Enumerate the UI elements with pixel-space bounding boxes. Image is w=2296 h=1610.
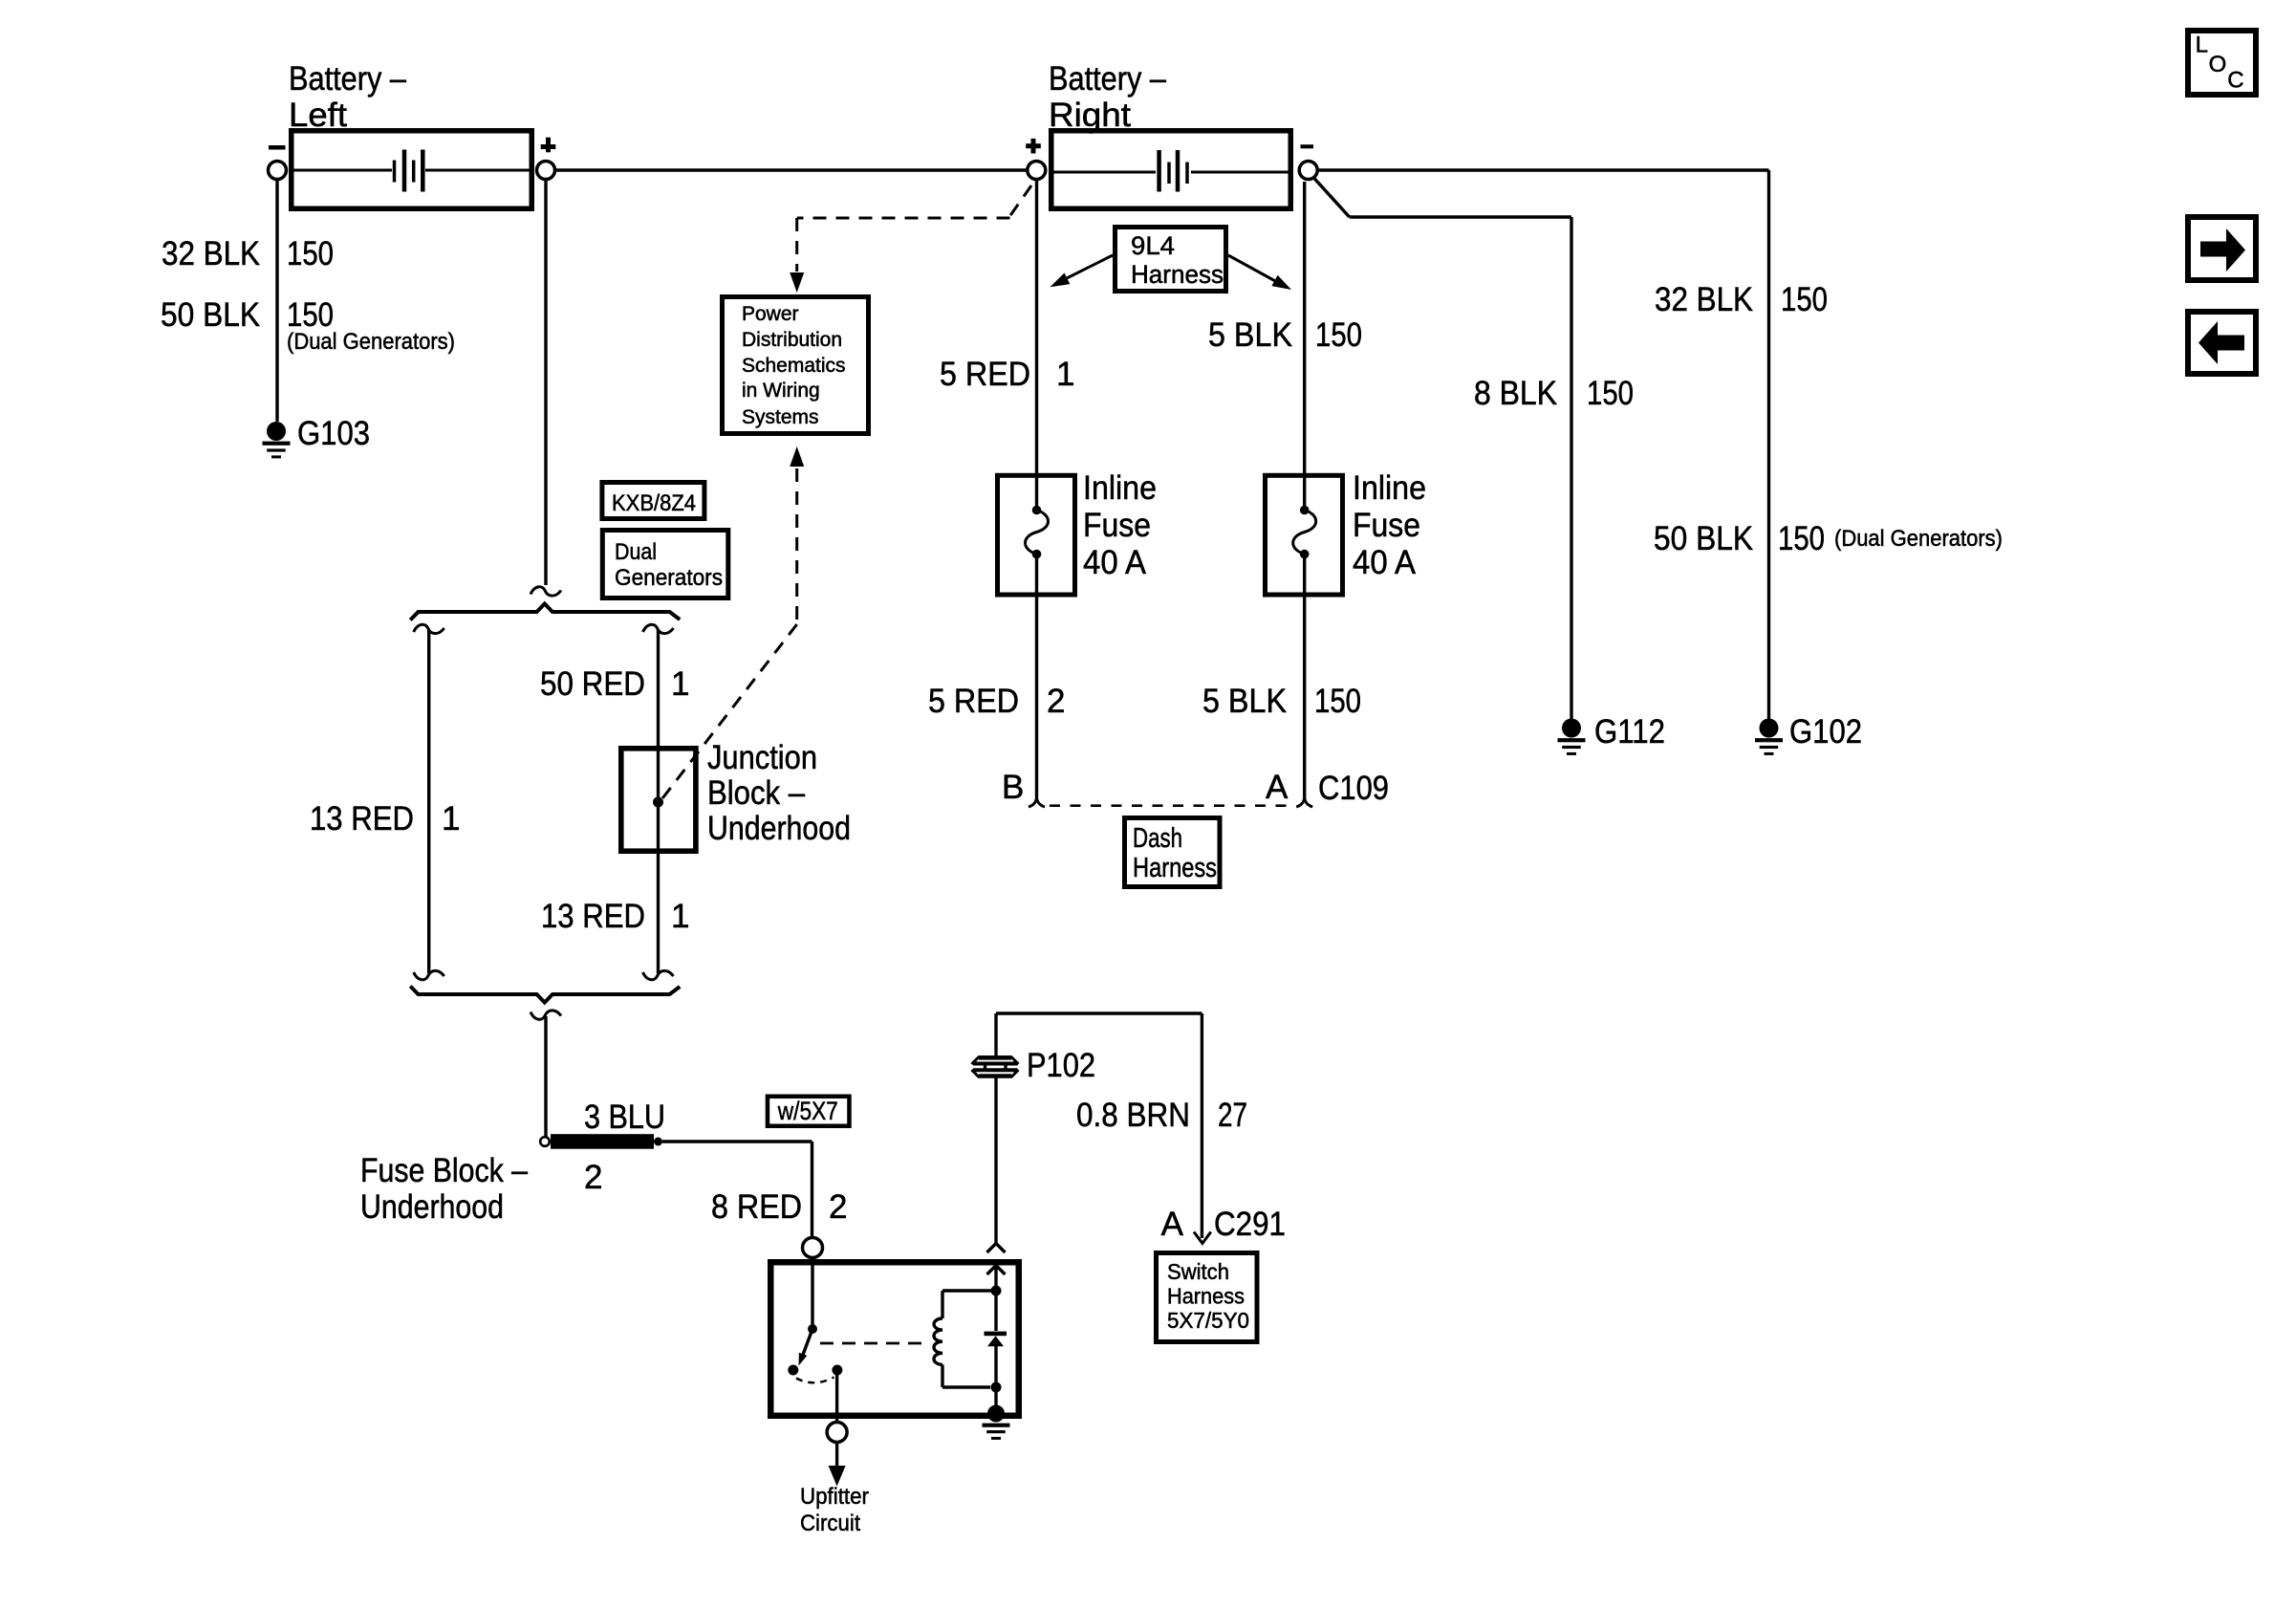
svg-text:L: L (2196, 33, 2208, 58)
svg-text:Circuit: Circuit (800, 1511, 860, 1536)
ground G102 (1755, 713, 1862, 755)
svg-text:Underhood: Underhood (360, 1188, 504, 1226)
wire 50 RED / 13 RED (643, 624, 674, 980)
battery B-right cell symbol (1051, 150, 1290, 192)
label 8 BLK 150 (1474, 375, 1634, 412)
svg-text:Generators: Generators (615, 565, 723, 591)
connector C109 pin A fork (1296, 797, 1312, 807)
svg-text:2: 2 (829, 1188, 847, 1226)
9L4 arrow right (1228, 255, 1291, 290)
wire 5 RED 2 (1035, 555, 1038, 797)
svg-text:Harness: Harness (1131, 260, 1224, 289)
svg-text:32 BLK: 32 BLK (162, 235, 260, 272)
svg-text:3 BLU: 3 BLU (584, 1099, 665, 1136)
node dot at bar end (654, 1138, 662, 1146)
inline fuse F1 element (1026, 506, 1049, 559)
relay coil L1 (934, 1318, 942, 1364)
battery B-left cell symbol (292, 150, 531, 192)
relay switch common (808, 1262, 817, 1334)
svg-text:9L4: 9L4 (1131, 231, 1175, 260)
power distribution schematics box (723, 297, 869, 434)
svg-text:Switch: Switch (1167, 1259, 1229, 1284)
battery B-left box (292, 131, 532, 209)
relay coil return (942, 1364, 990, 1387)
wire P102 riser and 0.8 BRN run (996, 1013, 1202, 1238)
svg-text:G112: G112 (1594, 713, 1665, 751)
dashed connector line C109 (1050, 804, 1289, 807)
svg-text:Inline: Inline (1083, 469, 1157, 507)
label 50 BLK 150 left (161, 296, 455, 355)
svg-text:w/5X7: w/5X7 (777, 1097, 838, 1125)
dash harness box (1125, 818, 1221, 887)
svg-text:8 BLK: 8 BLK (1474, 375, 1557, 412)
svg-text:50 BLK: 50 BLK (1654, 520, 1753, 557)
svg-text:B: B (1002, 769, 1024, 806)
wire 5 RED 1 (1035, 181, 1038, 509)
fuse block label (360, 1152, 528, 1226)
svg-text:50 RED: 50 RED (540, 665, 645, 703)
upfitter circuit arrow (829, 1443, 846, 1487)
wire 5 BLK 150 lower (1303, 555, 1306, 797)
svg-text:P102: P102 (1027, 1047, 1095, 1084)
relay contact NO (788, 1365, 798, 1376)
inline fuse F1 label (1083, 469, 1157, 581)
wire 32/50 BLK to G102 (1318, 170, 1769, 719)
connector C291 arrow (1194, 1232, 1211, 1244)
label 0.8 BRN 27 (1076, 1097, 1247, 1134)
svg-text:13 RED: 13 RED (310, 800, 414, 838)
brace upper (410, 604, 680, 620)
wire P102 down to relay (994, 1077, 997, 1243)
svg-text:(Dual Generators): (Dual Generators) (287, 329, 455, 355)
connector C109 pin B fork (1029, 797, 1045, 807)
relay terminal circle 30 (803, 1238, 823, 1258)
bracket 13 RED left (414, 624, 444, 980)
legend LOC box (2188, 31, 2256, 95)
label 8 RED 2 (711, 1188, 847, 1226)
svg-text:Underhood: Underhood (707, 810, 851, 847)
wire between battery terminals (555, 168, 1028, 171)
inline fuse F2 label (1353, 469, 1426, 581)
relay switch arm (799, 1329, 813, 1366)
svg-text:1: 1 (671, 665, 689, 703)
svg-text:Battery –: Battery – (1049, 60, 1166, 98)
svg-text:Dash: Dash (1133, 823, 1182, 854)
svg-text:2: 2 (1047, 683, 1065, 720)
svg-text:Upfitter: Upfitter (800, 1484, 869, 1510)
relay coil feed (942, 1266, 996, 1319)
wire 8 BLK to G112 (1313, 178, 1571, 720)
svg-text:Junction: Junction (707, 739, 817, 776)
svg-text:1: 1 (442, 800, 460, 838)
svg-text:G102: G102 (1789, 713, 1862, 751)
label 5 RED 1 (940, 356, 1074, 393)
dashed reference from junction block (660, 468, 797, 802)
upfitter circuit label (800, 1484, 869, 1536)
svg-text:Harness: Harness (1167, 1284, 1245, 1309)
diode D1 (985, 1291, 1007, 1382)
relay ground (983, 1405, 1010, 1440)
svg-text:0.8 BRN: 0.8 BRN (1076, 1097, 1190, 1134)
battery B-right plus sign (1026, 139, 1041, 154)
battery B-right minus sign (1301, 144, 1314, 148)
wire to relay ground (994, 1387, 997, 1405)
node dot coil top (991, 1286, 1002, 1296)
legend arrow-right box (2188, 217, 2256, 280)
battery B-left positive terminal (537, 162, 555, 180)
node dot coil bottom (991, 1382, 1002, 1393)
dashed arrow into power box bottom (790, 446, 804, 467)
dual generators box (602, 531, 728, 598)
svg-text:150: 150 (287, 235, 334, 272)
battery B-left plus sign (541, 138, 556, 153)
svg-text:5 BLK: 5 BLK (1208, 316, 1292, 354)
inline fuse F2 element (1293, 506, 1316, 559)
svg-text:Fuse Block –: Fuse Block – (360, 1152, 528, 1189)
brace lower (410, 987, 680, 1003)
label 32 BLK 150 right (1655, 281, 1828, 318)
ground G112 (1558, 713, 1666, 755)
svg-text:Schematics: Schematics (742, 355, 846, 377)
battery B-left minus sign (269, 145, 286, 150)
label 5 BLK 150 lower (1202, 683, 1361, 720)
svg-text:Inline: Inline (1353, 469, 1426, 507)
KXB/8Z4 box (602, 483, 704, 519)
svg-text:Battery –: Battery – (289, 60, 406, 98)
svg-text:O: O (2209, 52, 2227, 77)
svg-text:Block –: Block – (707, 774, 805, 812)
relay contact output (832, 1365, 842, 1376)
label 32 BLK 150 left (162, 235, 334, 272)
wire from left battery + down (544, 180, 547, 586)
battery B-right positive terminal (1028, 162, 1046, 180)
label 5 RED 2 (928, 683, 1065, 720)
wire 8 RED 2 (662, 1142, 812, 1237)
svg-text:150: 150 (1314, 683, 1361, 720)
svg-text:40 A: 40 A (1353, 544, 1417, 581)
label 50 RED 1 (540, 665, 689, 703)
svg-text:Harness: Harness (1133, 853, 1217, 883)
wire down to fuse block (544, 1016, 547, 1137)
label 13 RED 1 (541, 898, 689, 935)
svg-text:5 BLK: 5 BLK (1202, 683, 1287, 720)
svg-text:C109: C109 (1318, 770, 1389, 807)
svg-text:150: 150 (1778, 520, 1825, 557)
wire break curl bottom (531, 1011, 561, 1019)
relay box (770, 1262, 1019, 1416)
svg-text:(Dual Generators): (Dual Generators) (1834, 526, 2003, 552)
svg-text:Dual: Dual (615, 539, 657, 565)
inline fuse F1 box (998, 475, 1075, 595)
svg-text:150: 150 (1587, 375, 1634, 412)
svg-text:C: C (2227, 68, 2243, 94)
svg-text:C291: C291 (1214, 1206, 1286, 1243)
svg-text:KXB/8Z4: KXB/8Z4 (612, 490, 696, 516)
w/5X7 box (768, 1097, 850, 1126)
svg-text:5X7/5Y0: 5X7/5Y0 (1167, 1308, 1249, 1333)
svg-text:A: A (1161, 1206, 1184, 1243)
svg-text:40 A: 40 A (1083, 544, 1147, 581)
label 50 BLK 150 right (1654, 520, 2003, 557)
fusible link 3 BLU bar (551, 1134, 654, 1149)
battery B-left label (289, 60, 406, 134)
svg-text:5 RED: 5 RED (940, 356, 1030, 393)
relay contact dashed arc (796, 1378, 834, 1383)
svg-text:1: 1 (671, 898, 689, 935)
battery B-left negative terminal (269, 162, 287, 180)
fuse block terminal circle (540, 1137, 550, 1146)
svg-text:G103: G103 (297, 415, 370, 452)
junction block node dot (653, 797, 663, 808)
ground G103 (263, 415, 371, 458)
svg-text:150: 150 (1781, 281, 1828, 318)
relay terminal circle 87 (827, 1375, 847, 1443)
battery B-right box (1051, 131, 1291, 209)
wire 5 BLK 150 upper (1303, 182, 1306, 508)
battery B-right negative terminal (1299, 162, 1317, 180)
svg-text:Fuse: Fuse (1083, 507, 1151, 544)
9L4 harness box (1116, 228, 1226, 292)
svg-text:13 RED: 13 RED (541, 898, 645, 935)
label 13 RED 1 (bracket) (310, 800, 460, 838)
legend arrow-left box (2188, 312, 2256, 374)
splice P102 symbol (972, 1056, 1019, 1077)
switch harness box (1157, 1253, 1258, 1342)
svg-text:A: A (1266, 769, 1289, 806)
label 5 BLK 150 upper (1208, 316, 1362, 354)
svg-text:8 RED: 8 RED (711, 1188, 802, 1226)
junction block label (707, 739, 851, 847)
svg-text:Fuse: Fuse (1353, 507, 1420, 544)
wire 32/50 BLK 150 to G103 (275, 180, 278, 423)
chevron above relay (987, 1244, 1006, 1253)
svg-text:Power: Power (742, 303, 799, 325)
svg-text:Systems: Systems (742, 406, 819, 428)
svg-text:50 BLK: 50 BLK (161, 296, 260, 334)
9L4 arrow left (1051, 255, 1114, 287)
svg-text:2: 2 (584, 1159, 602, 1196)
dashed arrow into power box top (790, 272, 804, 293)
wire break curl top (531, 587, 561, 596)
svg-text:in Wiring: in Wiring (742, 380, 820, 402)
relay actuation dashed line (820, 1342, 924, 1345)
svg-text:5 RED: 5 RED (928, 683, 1019, 720)
chevron inside relay (987, 1266, 1006, 1275)
svg-text:32 BLK: 32 BLK (1655, 281, 1753, 318)
inline fuse F2 box (1266, 475, 1343, 595)
svg-text:27: 27 (1218, 1097, 1247, 1134)
junction block - underhood box (621, 749, 696, 851)
svg-text:1: 1 (1056, 356, 1074, 393)
svg-text:Distribution: Distribution (742, 329, 842, 351)
svg-text:150: 150 (1315, 316, 1362, 354)
battery B-right label (1049, 60, 1166, 134)
dashed reference from battery + (797, 185, 1031, 272)
